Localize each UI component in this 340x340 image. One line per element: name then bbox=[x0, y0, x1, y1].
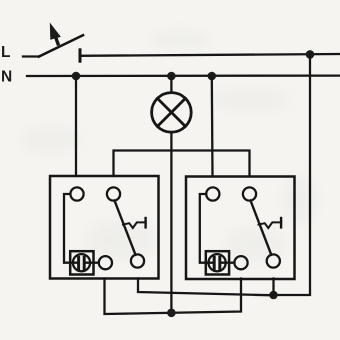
wire N bus bbox=[27, 74, 340, 77]
S1 terminal bottom-middle bbox=[99, 256, 112, 269]
S2 terminal top-right bbox=[243, 187, 256, 200]
S1 internal wire loop bbox=[64, 194, 71, 263]
wire right return (L junction down to corner) bbox=[274, 54, 311, 295]
switch box S1 bbox=[50, 176, 159, 279]
svg-text:N: N bbox=[1, 69, 12, 86]
wire L feed stub bbox=[23, 55, 39, 57]
S1 switch blade bbox=[115, 201, 136, 255]
S1 clamp wire through bbox=[71, 262, 99, 264]
node N-box2 junction bbox=[208, 72, 217, 81]
S1 actuator tick bbox=[144, 218, 146, 227]
node N-box1 junction bbox=[72, 72, 81, 81]
S2 terminal bottom-middle bbox=[234, 256, 247, 269]
S2 clamp contact bars bbox=[214, 257, 220, 269]
wire interconnect box1-TR to box2-TR bbox=[114, 151, 250, 177]
wire lamp to bottom bus bbox=[170, 132, 172, 313]
scan smudges bbox=[20, 30, 318, 263]
S2 terminal top-left bbox=[206, 187, 219, 200]
wire bottom lamp bus bbox=[105, 279, 242, 315]
S2 actuator squiggle bbox=[259, 222, 282, 228]
switch box S2 bbox=[186, 177, 295, 280]
S2 internal wire loop bbox=[200, 194, 207, 263]
S2 terminal bottom-right bbox=[267, 254, 280, 267]
wire N to lamp bbox=[170, 76, 172, 92]
switch S0 actuation arrow bbox=[50, 23, 61, 44]
S1 terminal top-right bbox=[107, 187, 120, 200]
node L-right junction bbox=[306, 50, 315, 59]
lamp E1 bbox=[152, 93, 192, 133]
S1 clamp terminal circle bbox=[73, 254, 90, 271]
S1 terminal top-left bbox=[70, 187, 83, 200]
wire L bus bbox=[80, 54, 340, 56]
node lamp-bottom junction bbox=[167, 309, 176, 318]
svg-text:L: L bbox=[1, 44, 10, 61]
S1 terminal bottom-right bbox=[131, 254, 144, 267]
S2 clamp terminal circle bbox=[209, 254, 226, 271]
switch S0 blade bbox=[39, 35, 83, 56]
switch S0 fixed contact tick bbox=[79, 50, 82, 61]
node N-lamp junction bbox=[167, 72, 176, 81]
wire N to box1 top-left bbox=[75, 76, 77, 176]
S2 switch blade bbox=[251, 201, 272, 255]
wire box1-BR to junction (strapping wire) bbox=[138, 279, 274, 296]
S1 clamp terminal square bbox=[70, 251, 93, 274]
wire box2-BR up from junction bbox=[272, 279, 274, 296]
S1 actuator squiggle bbox=[123, 222, 146, 228]
node corner junction bottom-right bbox=[269, 291, 278, 300]
S2 clamp wire through bbox=[206, 262, 234, 264]
S2 clamp terminal square bbox=[206, 251, 229, 274]
S1 clamp contact bars bbox=[79, 257, 85, 269]
S2 actuator tick bbox=[280, 218, 282, 227]
wire N to box2 top-left bbox=[211, 76, 214, 176]
